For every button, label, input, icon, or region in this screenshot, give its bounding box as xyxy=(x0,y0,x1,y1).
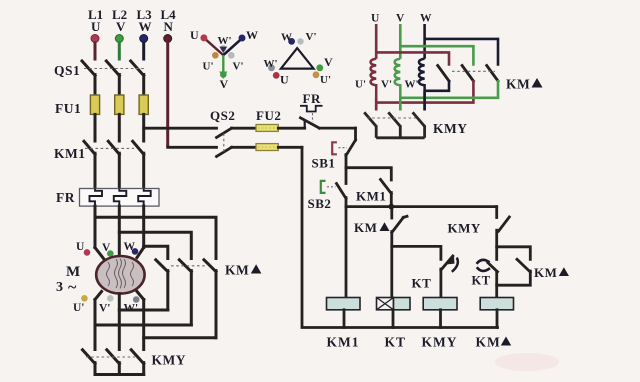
svg-text:V: V xyxy=(116,19,126,34)
svg-text:M: M xyxy=(66,264,80,280)
contactor KM-delta main contacts xyxy=(156,260,262,338)
contactor KM1 main contacts xyxy=(54,141,144,188)
winding KMY contacts xyxy=(364,91,467,138)
svg-text:KM: KM xyxy=(225,263,249,278)
svg-text:QS2: QS2 xyxy=(210,108,235,123)
svg-text:U': U' xyxy=(355,79,366,91)
svg-text:QS1: QS1 xyxy=(54,63,80,78)
svg-text:FR: FR xyxy=(303,91,321,106)
svg-text:KM: KM xyxy=(506,77,530,92)
svg-text:KMY: KMY xyxy=(448,221,481,236)
winding coil W-W' xyxy=(419,59,425,111)
star connection mini-diagram xyxy=(190,28,258,91)
svg-text:W: W xyxy=(281,32,292,44)
node L1 xyxy=(88,7,103,61)
svg-text:U: U xyxy=(91,19,101,34)
switch QS1 xyxy=(54,61,145,96)
wire: U to winding delta blade1 xyxy=(376,52,449,65)
svg-text:W: W xyxy=(420,13,432,25)
svg-text:~: ~ xyxy=(68,279,77,296)
motor M terminals top xyxy=(76,241,138,257)
svg-text:KM: KM xyxy=(534,265,557,280)
junction node xyxy=(388,204,394,210)
contact KT delayed open (to KM-delta coil) xyxy=(472,260,498,298)
svg-text:FR: FR xyxy=(56,190,75,205)
node L2 xyxy=(112,7,127,61)
wire: delta pole2 to U' xyxy=(95,324,191,327)
svg-text:KT: KT xyxy=(472,274,491,288)
coil KM-delta xyxy=(476,298,514,350)
contact KMY aux xyxy=(448,207,510,260)
wire: W to winding delta blade3 xyxy=(425,39,498,66)
wire: delta pole1 to V' xyxy=(119,309,168,312)
winding coil U-U' xyxy=(371,59,377,111)
wire: U phase to KM-delta pole3 xyxy=(95,217,216,258)
delta connection mini-diagram xyxy=(264,31,334,87)
winding coil V-V' xyxy=(395,59,401,111)
wire: control tap from W phase xyxy=(144,127,217,130)
motor M xyxy=(56,256,145,296)
svg-text:U: U xyxy=(280,73,289,87)
svg-text:U: U xyxy=(190,28,199,42)
svg-text:KM: KM xyxy=(476,335,501,350)
svg-text:U': U' xyxy=(320,74,331,86)
wire: junction to KMY branch xyxy=(346,205,391,208)
svg-text:U: U xyxy=(371,13,380,25)
thermal relay FR heater box xyxy=(56,189,159,207)
wires FR to motor with delta takeoffs xyxy=(95,206,144,259)
coil KM1 xyxy=(327,298,361,350)
wire: V to winding delta blade2 xyxy=(400,46,473,66)
svg-text:W': W' xyxy=(264,58,278,70)
fuse FU1 xyxy=(55,95,148,141)
svg-text:W: W xyxy=(139,19,152,34)
node L3 xyxy=(137,7,153,61)
wires motor bottom to KMY xyxy=(95,292,144,350)
wire: W phase to KM-delta pole1 xyxy=(144,246,168,258)
svg-text:FU2: FU2 xyxy=(256,108,281,123)
svg-text:3: 3 xyxy=(56,280,63,295)
switch QS2 xyxy=(210,108,281,157)
wire: delta pole3 to W' xyxy=(144,336,216,339)
button SB1 (stop) xyxy=(312,128,356,183)
coil KMY xyxy=(422,298,458,350)
svg-text:KMY: KMY xyxy=(422,335,458,350)
contact KM-delta NC (interlock) xyxy=(354,207,407,298)
svg-text:N: N xyxy=(164,19,174,34)
thermal contact FR (control) xyxy=(300,91,356,128)
svg-text:KT: KT xyxy=(412,276,432,291)
contact KM1 aux (self-hold) xyxy=(346,168,391,207)
motor M terminals bottom xyxy=(73,295,140,315)
button SB2 (start) xyxy=(308,181,347,298)
control N rail down and bottom rail xyxy=(302,147,498,327)
svg-text:V': V' xyxy=(381,79,392,91)
node L4 / N line xyxy=(161,7,177,147)
svg-text:V': V' xyxy=(233,61,244,73)
svg-text:V: V xyxy=(220,77,229,91)
svg-text:FU1: FU1 xyxy=(55,101,81,116)
svg-text:KMY: KMY xyxy=(152,353,187,368)
svg-text:KM1: KM1 xyxy=(327,335,360,350)
svg-text:KM1: KM1 xyxy=(356,189,386,204)
winding KM-delta contacts xyxy=(438,66,543,92)
wire: winding blade2 to U' xyxy=(376,80,473,103)
svg-text:U: U xyxy=(76,241,85,253)
wire: winding blade1 to W' xyxy=(425,80,449,91)
svg-text:SB2: SB2 xyxy=(308,196,332,211)
svg-text:W': W' xyxy=(218,35,232,47)
svg-text:V': V' xyxy=(99,303,111,315)
contact KM-delta aux (parallel) xyxy=(497,247,569,285)
svg-text:V: V xyxy=(324,55,333,69)
coil KT (timer) xyxy=(377,298,411,350)
wire: N control feed xyxy=(168,146,217,149)
svg-text:KMY: KMY xyxy=(433,121,468,136)
svg-text:W: W xyxy=(246,28,258,42)
fuse FU2 xyxy=(256,125,305,151)
svg-text:U': U' xyxy=(73,302,85,314)
winding diagram: terminals U V W xyxy=(371,13,432,59)
svg-text:V: V xyxy=(396,13,405,25)
svg-text:V': V' xyxy=(306,31,317,43)
svg-text:KT: KT xyxy=(385,335,407,350)
svg-text:KM1: KM1 xyxy=(54,146,86,161)
wire: winding blade3 to V' xyxy=(400,80,498,98)
svg-text:W': W' xyxy=(405,79,419,91)
contact KT delayed close (to KMY coil) xyxy=(392,246,458,297)
contactor KMY main contacts xyxy=(83,350,187,375)
wire: V phase to KM-delta pole2 xyxy=(119,232,191,258)
svg-text:U': U' xyxy=(203,61,214,73)
svg-text:SB1: SB1 xyxy=(312,156,336,171)
svg-text:KM: KM xyxy=(354,220,377,235)
